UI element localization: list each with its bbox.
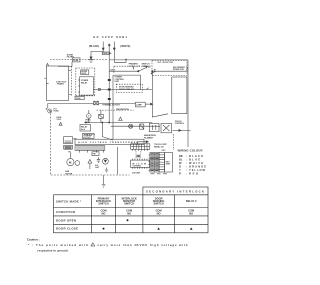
svg-text:BL: BL xyxy=(179,158,183,162)
svg-text:YELLOW: YELLOW xyxy=(189,168,206,172)
svg-text:ORANGE: ORANGE xyxy=(189,165,206,169)
svg-text:PANEL CN: PANEL CN xyxy=(154,145,164,148)
svg-text:SWITCH: SWITCH xyxy=(98,202,108,206)
svg-text:WHITE: WHITE xyxy=(189,161,203,165)
switch state table xyxy=(54,187,209,233)
dashed relay1 box xyxy=(116,84,142,92)
noise filter dashed enclosure xyxy=(76,68,95,96)
hv capacitor box xyxy=(149,123,159,131)
bus B y126.2 xyxy=(111,125,160,127)
svg-text:BK: BK xyxy=(179,154,183,158)
svg-text:No.2: No.2 xyxy=(81,129,85,131)
svg-text:FILTER: FILTER xyxy=(67,57,74,59)
right tall box xyxy=(172,77,187,114)
ground below diode xyxy=(105,168,109,173)
svg-text:RELAY 2: RELAY 2 xyxy=(186,199,197,203)
wire switch drop xyxy=(152,71,168,117)
svg-text:CN-A: CN-A xyxy=(76,97,81,100)
svg-text:BLUE: BLUE xyxy=(189,158,200,162)
wire L lead xyxy=(102,42,104,52)
ground below dashed box xyxy=(102,175,106,187)
svg-text:INTERLOCK: INTERLOCK xyxy=(173,69,185,71)
small box tap xyxy=(92,152,99,156)
wire N lead xyxy=(113,42,115,63)
second small circle xyxy=(75,161,80,166)
svg-text:FUSE: FUSE xyxy=(73,60,79,62)
secondary interlock header box xyxy=(143,187,208,195)
svg-text:MOTOR: MOTOR xyxy=(65,173,73,175)
svg-text:SWITCH MADE *: SWITCH MADE * xyxy=(56,199,82,203)
svg-text:CN-D: CN-D xyxy=(110,70,115,72)
label under relay box xyxy=(75,96,84,99)
hatch strip H-mid xyxy=(159,153,165,173)
wiring colour legend xyxy=(178,149,207,176)
dotted links xyxy=(135,151,137,159)
wire to LVT xyxy=(58,62,72,67)
svg-text:INTERLOCK: INTERLOCK xyxy=(129,66,141,68)
hv capacitor symbol xyxy=(97,157,100,163)
svg-text:SEC: SEC xyxy=(73,138,78,140)
row lines xyxy=(54,208,209,225)
wire hook to ground xyxy=(91,52,103,55)
dashes left of relay2 xyxy=(84,133,96,135)
hv transformer label box xyxy=(75,139,144,144)
svg-text:carry more than 4KVDC high vol: carry more than 4KVDC high voltage with xyxy=(98,243,188,247)
svg-text:SUPP.: SUPP. xyxy=(81,73,87,75)
dashed corner near pcb xyxy=(114,66,129,74)
svg-text:NO: NO xyxy=(127,211,131,215)
relay contact box xyxy=(99,115,104,119)
monitor switch symbol xyxy=(151,73,152,74)
wire top bus y71.2 xyxy=(109,70,188,72)
table outer xyxy=(54,195,209,233)
junction dot top bus xyxy=(125,59,126,60)
IC chip xyxy=(131,160,150,167)
small box right xyxy=(136,102,146,107)
winding taps xyxy=(80,150,104,152)
svg-text:O: O xyxy=(179,165,181,169)
secondary hatch xyxy=(64,145,73,149)
primary interlock switch xyxy=(137,70,139,72)
svg-text:WIRING COLOUR: WIRING COLOUR xyxy=(178,149,203,153)
warning triangle 3 xyxy=(88,160,92,164)
svg-text:SWITCH: SWITCH xyxy=(153,202,163,206)
svg-text:FILAMENT: FILAMENT xyxy=(144,136,154,139)
bus A y122.5 xyxy=(84,122,152,124)
svg-text:FUSE 15A: FUSE 15A xyxy=(103,52,112,55)
relay power box xyxy=(80,77,94,95)
svg-text:NO: NO xyxy=(102,211,106,215)
svg-text:RELAY: RELAY xyxy=(81,81,88,84)
transformer secondary block xyxy=(64,137,73,144)
fan motor xyxy=(69,153,71,159)
warning triangle 1 xyxy=(59,122,62,125)
wire center conductor xyxy=(108,44,110,123)
tco label box xyxy=(83,134,95,139)
fan motor circle with X xyxy=(129,124,133,128)
block H2 xyxy=(165,153,173,173)
dashed line mid xyxy=(97,109,134,111)
lamp stubs xyxy=(89,110,101,122)
component box right xyxy=(161,123,172,132)
svg-text:THERMAL CUTOUT: THERMAL CUTOUT xyxy=(102,104,120,107)
connector grid H1 xyxy=(150,153,159,173)
svg-text:HIGH VOLTAGE TRANSFORMER: HIGH VOLTAGE TRANSFORMER xyxy=(78,141,138,144)
svg-text:VOLT: VOLT xyxy=(57,119,63,121)
svg-text:AC 120V 60Hz: AC 120V 60Hz xyxy=(93,35,127,39)
svg-text:Y: Y xyxy=(179,168,181,172)
svg-text:respective to ground.: respective to ground. xyxy=(37,248,68,252)
svg-text:NO: NO xyxy=(189,211,193,215)
relay2 box xyxy=(80,125,91,132)
chassis dashed line xyxy=(50,58,108,60)
vertical line right of transformer xyxy=(116,147,118,174)
arrow line right xyxy=(172,129,190,131)
fuse box F1 xyxy=(72,58,80,62)
connector pins strip xyxy=(131,144,150,150)
svg-text:DOOR OPEN: DOOR OPEN xyxy=(56,218,76,222)
low voltage transformer box xyxy=(46,66,68,100)
dashed hv box xyxy=(50,110,129,175)
svg-text:CUTOUT: CUTOUT xyxy=(83,137,91,139)
svg-text:TRANS: TRANS xyxy=(57,83,65,86)
svg-text:BLACK: BLACK xyxy=(189,154,203,158)
dashed vertical right xyxy=(173,134,175,150)
bus y89.5 xyxy=(93,89,152,91)
svg-text:(BLACK): (BLACK) xyxy=(89,45,99,48)
svg-text:CONTROL: CONTROL xyxy=(175,123,185,125)
varistor label box xyxy=(81,70,89,75)
svg-text:SWITCH: SWITCH xyxy=(124,202,134,206)
dashed vertical mid xyxy=(70,66,72,96)
bus y103.4 xyxy=(48,102,94,104)
ac source symbol xyxy=(47,103,49,108)
svg-text:DOOR CLOSE: DOOR CLOSE xyxy=(56,227,78,231)
fuse with X xyxy=(94,101,99,105)
hv diode circle xyxy=(103,158,109,164)
svg-text:MAGNETRON: MAGNETRON xyxy=(116,108,129,111)
hv diode box xyxy=(140,124,144,129)
svg-text:(RELAY1): (RELAY1) xyxy=(142,65,151,68)
svg-text:R: R xyxy=(179,172,181,176)
line up from connector xyxy=(137,142,147,145)
control pcb box xyxy=(113,75,141,139)
ground earth symbol xyxy=(90,54,92,59)
svg-text:RED: RED xyxy=(189,172,198,176)
svg-text:Caution :: Caution : xyxy=(27,237,40,241)
svg-text:* : The parts marked with: * : The parts marked with xyxy=(28,243,88,247)
column lines xyxy=(92,195,175,233)
svg-text:FUSE: FUSE xyxy=(54,111,60,113)
svg-text:SECONDARY INTERLOCK: SECONDARY INTERLOCK xyxy=(146,190,204,194)
svg-text:(WHITE): (WHITE) xyxy=(120,45,130,48)
svg-text:SWITCH RELAY2: SWITCH RELAY2 xyxy=(119,88,134,91)
svg-text:LSI UNIT: LSI UNIT xyxy=(132,173,141,175)
hv transformer winding xyxy=(75,146,105,151)
wire N to right edge xyxy=(114,60,126,62)
oven lamp xyxy=(87,114,92,119)
svg-text:CONTROL: CONTROL xyxy=(133,166,143,168)
svg-text:NO: NO xyxy=(157,211,161,215)
dashes under blocks xyxy=(151,173,168,175)
H1 wire stubs xyxy=(149,155,150,171)
interlock monitor dashed box xyxy=(152,61,187,76)
caution note xyxy=(27,237,188,252)
svg-text:LAMP: LAMP xyxy=(136,104,142,107)
svg-text:CONDITION: CONDITION xyxy=(56,210,75,214)
wire top bus y59.9 xyxy=(109,59,188,61)
caution warning triangle xyxy=(91,243,95,246)
pins on center conductor xyxy=(108,79,111,81)
fuse label box top xyxy=(102,52,109,55)
wire drop from bus A xyxy=(102,123,113,141)
svg-text:INT. MONITOR: INT. MONITOR xyxy=(158,62,174,64)
warning triangle 2 xyxy=(119,117,123,120)
table marks xyxy=(103,219,193,230)
